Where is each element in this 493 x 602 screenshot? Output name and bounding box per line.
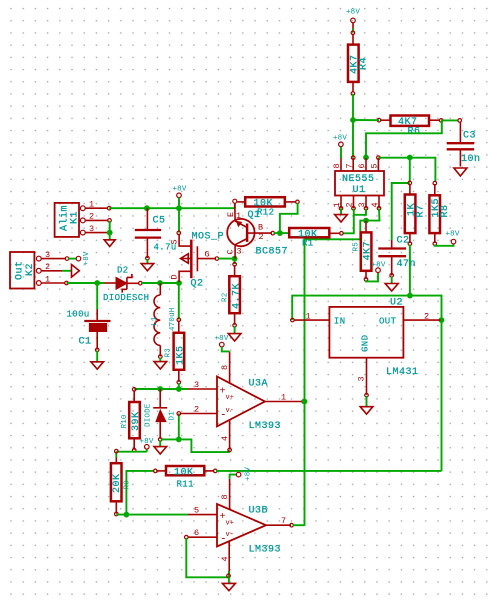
resistor R6 <box>377 116 443 138</box>
node pin4/R5 junction <box>363 218 369 224</box>
U3B pin 6 <box>185 528 218 539</box>
op-amp U3A LM393 <box>217 377 281 433</box>
svg-text:10K: 10K <box>174 468 194 479</box>
NE555 pin 1 <box>332 196 343 211</box>
ground at K2 pin2 (right-pointing) <box>62 265 79 278</box>
transistor Q2 MOS_P <box>170 231 225 289</box>
node U3A output junction <box>302 399 308 405</box>
svg-text:3: 3 <box>89 224 94 234</box>
svg-text:4: 4 <box>220 556 230 561</box>
svg-text:R11: R11 <box>177 480 194 490</box>
wire main +8V net y208 <box>109 207 235 209</box>
svg-text:2: 2 <box>45 262 50 272</box>
resistor R12 <box>237 197 299 217</box>
svg-text:7: 7 <box>281 516 286 526</box>
ground under R2 <box>228 334 241 341</box>
svg-text:C2: C2 <box>397 236 410 247</box>
U3B pin 4 <box>220 541 230 575</box>
svg-text:6: 6 <box>194 528 199 538</box>
wire NE555 pin2+pin3 to R1 <box>354 209 366 215</box>
K2 pin 3 <box>36 250 68 261</box>
svg-text:Q2: Q2 <box>191 279 204 290</box>
resistor R5 <box>353 221 374 282</box>
svg-text:v+: v+ <box>226 520 234 528</box>
wire U2 pin3 to ground <box>366 396 368 406</box>
wire right column down to R11 net <box>441 320 443 471</box>
node C5 tap <box>144 205 150 211</box>
wire L1 to ground <box>159 358 161 362</box>
svg-text:GND: GND <box>361 335 371 352</box>
svg-text:470uH: 470uH <box>169 307 177 331</box>
wire +8V node to Q2 source <box>178 208 180 232</box>
node R3 tap <box>176 386 182 392</box>
IC U2 LM431 <box>329 298 418 379</box>
svg-text:20K: 20K <box>112 473 123 493</box>
NE555 pin 2 <box>345 196 356 211</box>
svg-text:OUT: OUT <box>379 317 397 327</box>
wire R7 bottom down to U2 net <box>409 245 411 296</box>
wire NE555 pin4 to node <box>366 209 380 221</box>
svg-text:10n: 10n <box>461 154 481 165</box>
svg-text:4K7: 4K7 <box>363 241 374 261</box>
svg-text:K2: K2 <box>25 263 36 276</box>
node R7 bottom junction <box>407 293 413 299</box>
wire U3B pin4 to ground <box>228 577 230 583</box>
svg-text:D: D <box>170 274 180 279</box>
node C1 tap <box>94 280 100 286</box>
K1 pin 2 <box>80 212 111 223</box>
resistor R10 <box>121 388 142 452</box>
K1 pin 3 <box>80 224 108 235</box>
svg-text:1: 1 <box>306 312 311 322</box>
svg-text:R2: R2 <box>222 293 230 302</box>
resistor R1 <box>289 228 343 249</box>
wire comparator + input net y389 <box>134 388 188 390</box>
node +8V / Q2 source tap <box>176 205 182 211</box>
U3A pin 8 <box>220 351 230 383</box>
wire D1 anode to ground <box>159 440 161 446</box>
ground under D1 <box>154 447 167 454</box>
wire R6 left to R4 column <box>353 119 379 121</box>
svg-text:C3: C3 <box>463 131 476 142</box>
svg-text:R6: R6 <box>408 127 421 138</box>
svg-text:R1: R1 <box>302 239 314 249</box>
resistor R9 <box>111 449 132 515</box>
svg-text:1: 1 <box>281 393 286 403</box>
wire NE555 pin5 net <box>378 158 435 182</box>
svg-text:2: 2 <box>424 312 429 322</box>
svg-text:1: 1 <box>236 211 241 221</box>
ground under U3B <box>222 583 235 590</box>
resistor R4 <box>348 31 370 95</box>
svg-text:39K: 39K <box>131 411 142 431</box>
U3B pin 5 <box>188 506 217 516</box>
svg-text:100u: 100u <box>67 310 90 320</box>
node U3A pin2 feedback junction <box>176 437 182 443</box>
resistor R11 <box>154 466 218 490</box>
svg-text:3: 3 <box>357 376 367 381</box>
svg-text:DIODE: DIODE <box>145 403 153 427</box>
svg-text:+8V: +8V <box>245 467 253 481</box>
svg-text:U3B: U3B <box>249 506 269 517</box>
svg-text:1K5: 1K5 <box>176 345 187 365</box>
svg-text:R10: R10 <box>121 414 129 428</box>
U3A pin 2 <box>177 405 217 416</box>
K2 pin 1 <box>36 274 68 285</box>
svg-text:+8V: +8V <box>172 186 186 194</box>
node gate/collector junction <box>232 256 238 262</box>
svg-text:5: 5 <box>194 506 199 516</box>
svg-text:1: 1 <box>45 274 50 284</box>
svg-text:R9: R9 <box>124 480 132 489</box>
svg-text:U1: U1 <box>353 185 366 196</box>
svg-text:R4: R4 <box>359 57 370 70</box>
ground under C1 <box>91 362 104 369</box>
ground under NE555 pin1 <box>335 215 348 222</box>
wire R11 left leg <box>126 471 154 515</box>
wire K2 pin1 to D2 <box>67 282 105 284</box>
K1 pin 1 <box>80 200 111 211</box>
wire U3A pin2 down <box>178 414 180 440</box>
wire K1 pin2/pin3 to ground <box>109 221 111 240</box>
power +8V at R8 <box>445 231 459 244</box>
svg-text:v+: v+ <box>226 394 234 402</box>
capacitor C1 (polarized) <box>67 283 111 352</box>
svg-text:LM393: LM393 <box>249 545 282 556</box>
wire U2 top route (pin1 to pin2) <box>292 296 441 321</box>
svg-text:LM431: LM431 <box>386 367 419 378</box>
svg-text:v-: v- <box>226 407 234 415</box>
svg-text:+8V: +8V <box>83 251 91 265</box>
svg-text:IN: IN <box>334 317 346 327</box>
resistor R3 <box>165 318 187 384</box>
svg-text:U2: U2 <box>390 298 403 309</box>
node L1 tap <box>157 280 163 286</box>
wire R2 top from collector node <box>234 259 236 264</box>
wire R6 right down to NE555 pin6 <box>366 120 442 157</box>
node R11 tap <box>124 512 130 518</box>
wire C2 to ground <box>391 277 393 284</box>
svg-text:C5: C5 <box>153 216 166 227</box>
wire C5 to ground <box>146 259 148 263</box>
power +8V at R5 <box>371 262 385 273</box>
svg-text:+8V: +8V <box>333 135 347 143</box>
NE555 pin 5 <box>370 156 381 171</box>
power +8V main <box>172 186 186 209</box>
power +8V at R10 <box>139 438 153 452</box>
svg-text:R5: R5 <box>353 242 361 252</box>
node Q2 drain junction <box>176 280 182 286</box>
svg-text:1: 1 <box>332 202 342 207</box>
power +8V P1 top <box>346 9 360 29</box>
U2 pin 1 <box>291 312 330 322</box>
capacitor C3 <box>447 119 481 167</box>
svg-text:+8V: +8V <box>346 9 360 17</box>
wire R9 bottom to U3B pin5 <box>116 514 188 516</box>
U3A pin 1 output <box>265 393 306 404</box>
wire U3B output to column <box>293 524 305 526</box>
svg-text:4.7K: 4.7K <box>232 283 243 309</box>
svg-text:1: 1 <box>89 200 94 210</box>
resistor R7 <box>405 181 427 245</box>
svg-text:2: 2 <box>194 405 199 415</box>
ground under U2 <box>360 407 373 414</box>
svg-text:L1: L1 <box>151 316 159 326</box>
wire +8V to R4 <box>352 29 354 33</box>
svg-text:R12: R12 <box>257 208 274 218</box>
diode D1 <box>145 389 177 441</box>
wire Q2 gate to Q1 collector <box>218 258 235 260</box>
svg-text:C: C <box>226 249 236 254</box>
svg-text:B: B <box>258 223 263 233</box>
U3A pin 3 <box>188 380 217 390</box>
svg-text:MOS_P: MOS_P <box>192 232 225 243</box>
svg-text:5: 5 <box>370 163 380 168</box>
ground under C5 <box>141 264 154 271</box>
wire R7 top to C2 <box>392 183 410 240</box>
svg-text:8: 8 <box>332 163 342 168</box>
NE555 pin 8 <box>332 158 342 171</box>
wire R6 right to C3 <box>441 119 458 121</box>
wire R5 bottom to +8V <box>366 272 378 281</box>
node R4/R6 junction <box>350 117 356 123</box>
power +8V at U3B pin8 <box>230 467 253 481</box>
svg-text:S: S <box>170 239 180 244</box>
capacitor C2 <box>378 236 416 278</box>
svg-text:4: 4 <box>220 436 230 441</box>
svg-text:LM393: LM393 <box>249 421 282 432</box>
svg-text:3: 3 <box>357 202 367 207</box>
svg-text:4: 4 <box>370 202 380 207</box>
resistor R8 <box>429 181 451 245</box>
U2 pin 3 <box>357 358 369 397</box>
svg-text:8: 8 <box>220 365 230 370</box>
svg-text:6: 6 <box>357 163 367 168</box>
svg-text:NE555: NE555 <box>342 174 375 185</box>
svg-text:2: 2 <box>259 232 264 242</box>
wire pin5 node down to R7 <box>409 158 411 183</box>
wire R10 bottom +8V link <box>116 451 147 453</box>
connector K1 Alim <box>55 203 81 237</box>
wire NE555 pin1 to ground <box>340 208 342 214</box>
svg-text:Out: Out <box>15 260 26 280</box>
svg-text:R8: R8 <box>440 204 451 217</box>
NE555 pin 7 <box>344 156 355 171</box>
svg-text:3: 3 <box>45 250 50 260</box>
svg-text:E: E <box>226 212 236 217</box>
ground under K1 <box>104 240 115 247</box>
NE555 pin 6 <box>357 155 369 171</box>
svg-text:2: 2 <box>89 212 94 222</box>
wire base to R1 <box>274 232 290 234</box>
connector K2 Out <box>10 252 36 289</box>
ground under C2 <box>385 284 398 292</box>
power +8V at K2 pin3 <box>68 251 91 265</box>
resistor R2 <box>222 263 243 328</box>
svg-text:3: 3 <box>194 380 199 390</box>
node U2 pin2 junction <box>439 317 445 323</box>
wire R3 bottom to comparator net <box>178 383 180 389</box>
op-amp U3B LM393 <box>217 504 281 556</box>
svg-text:8: 8 <box>220 494 230 499</box>
node D1 tap <box>157 386 163 392</box>
svg-text:U3A: U3A <box>249 379 269 390</box>
svg-text:K1: K1 <box>70 211 81 224</box>
ground under L1 <box>154 362 167 369</box>
svg-text:D1: D1 <box>169 411 177 421</box>
svg-text:R3: R3 <box>165 348 173 358</box>
wire R2 to ground <box>234 326 236 333</box>
svg-text:G: G <box>205 250 210 260</box>
U3A pin 4 <box>220 420 231 452</box>
svg-text:47n: 47n <box>397 259 417 270</box>
svg-text:R7: R7 <box>416 204 427 217</box>
svg-text:2: 2 <box>345 202 355 207</box>
svg-text:3: 3 <box>237 247 242 257</box>
node base junction <box>277 230 283 236</box>
wire C1 to ground <box>96 351 98 362</box>
svg-text:+8V: +8V <box>445 231 459 239</box>
node pin5/R7 tap <box>407 155 413 161</box>
diode D2 DIODESCH <box>103 266 149 304</box>
ground under C3 <box>454 168 467 176</box>
svg-text:DIODESCH: DIODESCH <box>103 293 149 303</box>
svg-text:7: 7 <box>344 163 354 168</box>
svg-text:D2: D2 <box>117 266 129 276</box>
wire Q2 drain to R3 <box>178 283 180 320</box>
U3B pin 7 output <box>266 516 293 527</box>
node K1 pin3 junction <box>107 230 113 236</box>
U3B pin 8 <box>220 479 230 510</box>
wire R12 right to Q1 base node <box>280 203 298 233</box>
capacitor C5 <box>135 208 177 260</box>
wire D2 to Q2 drain <box>141 282 179 284</box>
svg-text:v-: v- <box>226 531 234 539</box>
svg-text:BC857: BC857 <box>256 247 289 258</box>
power +8V at U3A pin8 <box>214 335 229 351</box>
transistor Q1 BC857 <box>226 199 289 258</box>
inductor L1 470uH <box>151 283 177 359</box>
U2 pin 2 <box>403 312 440 322</box>
NE555 pin 4 <box>370 196 381 211</box>
K2 pin 2 <box>36 262 62 273</box>
wire R4 to NE555 pin7 <box>352 94 354 158</box>
NE555 pin 3 <box>357 196 368 211</box>
wire pin4 node to U3A output column <box>305 221 367 526</box>
wire R11 right to column <box>216 470 442 472</box>
IC U1 NE555 <box>335 171 384 196</box>
power +8V NE555 pin8 <box>333 135 347 159</box>
wire U3B pin6 to pin4/ground <box>186 538 229 577</box>
wire D1/pin2 node to U3A pin4 <box>161 439 229 452</box>
wire R8 bottom to +8V <box>435 244 454 246</box>
svg-text:C1: C1 <box>79 337 92 348</box>
